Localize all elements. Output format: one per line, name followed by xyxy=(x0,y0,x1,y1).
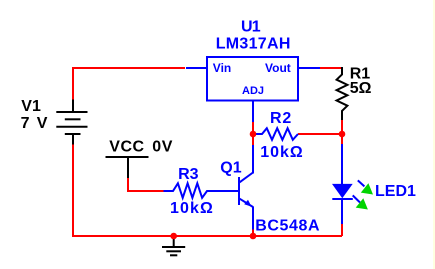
regulator U1 LM317AH body xyxy=(207,57,298,101)
svg-text:5Ω: 5Ω xyxy=(350,80,372,97)
wire: Vout to R1 top corner xyxy=(320,67,341,69)
junction dot emitter rail xyxy=(250,233,257,240)
pin Vout lead xyxy=(298,67,320,69)
LED arrow head 1 (green) xyxy=(361,183,373,194)
transistor Q1 xyxy=(239,145,253,230)
workspace edge strip xyxy=(433,0,435,269)
svg-text:10kΩ: 10kΩ xyxy=(260,144,304,161)
svg-text:10kΩ: 10kΩ xyxy=(170,200,214,217)
LED arrow tail 2 xyxy=(353,195,360,202)
wire: Q1 emitter to rail xyxy=(252,229,254,236)
svg-text:Q1: Q1 xyxy=(220,160,241,177)
svg-text:VCC: VCC xyxy=(109,138,144,155)
wire: VCC down and right to R3 xyxy=(128,178,164,191)
svg-text:LM317AH: LM317AH xyxy=(216,36,291,53)
svg-text:BC548A: BC548A xyxy=(255,217,320,234)
junction dot ADJ/R2 xyxy=(250,131,257,138)
wire: LED cathode down to rail xyxy=(341,224,343,236)
wire: battery bottom to ground rail xyxy=(73,144,342,236)
svg-text:R2: R2 xyxy=(270,110,292,127)
junction dot R1/R2/LED xyxy=(339,131,346,138)
svg-text:0V: 0V xyxy=(152,138,173,155)
VCC supply symbol xyxy=(106,156,149,158)
svg-text:U1: U1 xyxy=(241,18,261,35)
resistor R3 xyxy=(164,183,239,198)
Q1 emitter arrow xyxy=(244,200,251,207)
resistor R2 xyxy=(256,128,298,140)
ground xyxy=(162,236,185,255)
svg-text:ADJ: ADJ xyxy=(242,85,264,97)
svg-text:7 V: 7 V xyxy=(21,115,49,132)
LED LED1 xyxy=(341,144,343,186)
wire: junction to LED anode xyxy=(341,134,343,145)
resistor R1 xyxy=(337,67,348,120)
wire: R2 right to junction at R1 xyxy=(298,133,342,135)
wire: battery top to Vin xyxy=(73,68,185,100)
wire: ADJ lead down through junction to Q1 collector xyxy=(252,122,254,145)
pin ADJ lead xyxy=(252,101,254,122)
LED arrow tail 1 xyxy=(358,180,365,186)
svg-text:Vout: Vout xyxy=(265,61,291,75)
pin Vin lead xyxy=(186,67,207,69)
svg-text:LED1: LED1 xyxy=(375,183,416,200)
wire: R1 bottom to junction xyxy=(341,120,343,134)
svg-text:Vin: Vin xyxy=(213,61,231,75)
battery V1 xyxy=(56,100,87,145)
svg-text:R3: R3 xyxy=(178,166,199,183)
LED arrow head 2 (green) xyxy=(356,198,368,209)
junction dot ground rail xyxy=(170,233,177,240)
svg-text:V1: V1 xyxy=(21,98,41,115)
